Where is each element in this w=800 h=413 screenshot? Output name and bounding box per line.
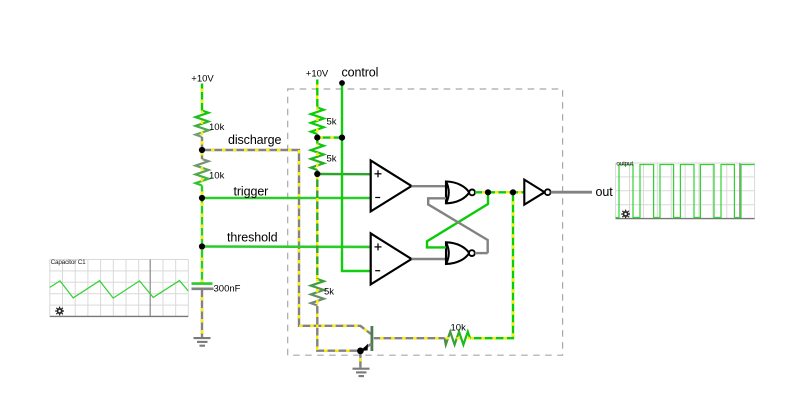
wire: latch node to inverter node: [488, 191, 513, 193]
op-amp comparator 2: [371, 233, 412, 284]
svg-text:discharge: discharge: [228, 133, 281, 147]
svg-text:+10V: +10V: [191, 74, 214, 85]
wire: R1 to R2 through discharge node: [201, 137, 203, 159]
ground (transistor emitter): [353, 369, 370, 376]
resistor 5k #3: [311, 279, 324, 306]
svg-text:Capacitor C1: Capacitor C1: [51, 259, 87, 266]
svg-text:10k: 10k: [209, 171, 225, 182]
wire: feedback down to discharge transistor drive: [470, 192, 513, 338]
wire: divider junction to control: [317, 136, 342, 138]
wire: +10V to R1: [201, 84, 203, 111]
svg-text:control: control: [342, 66, 379, 80]
wire: +10V to 5k #1: [316, 80, 318, 108]
resistor R2 10k: [196, 159, 209, 186]
node divider junction: [314, 135, 320, 141]
svg-text:+10V: +10V: [306, 68, 329, 79]
resistor 5k #2: [311, 144, 324, 171]
node control junction: [339, 135, 345, 141]
wire: comp1 output: [412, 185, 447, 187]
wire: node to inverter: [513, 191, 524, 193]
wire: discharge run to transistor collector: [202, 150, 371, 334]
wire: emitter to ground: [359, 351, 361, 368]
wire: 5k3 to emitter node: [317, 306, 357, 351]
capacitor C1 300nF: [192, 282, 213, 285]
wire: gray feedback gate2 out to gate1 input: [428, 198, 488, 253]
svg-text:threshold: threshold: [227, 231, 278, 245]
NAND gate 2 (bottom of SR latch): [446, 242, 475, 264]
node comp1 plus junction: [314, 171, 320, 177]
node control post: [339, 80, 345, 86]
node gate1 output: [485, 189, 491, 195]
wire: 5k2 down to 5k3: [316, 170, 318, 279]
wire: trigger node down to capacitor: [201, 186, 203, 284]
node discharge: [199, 147, 205, 153]
scope: capacitor C1 waveform window: [50, 259, 189, 316]
svg-text:trigger: trigger: [234, 185, 269, 199]
wire: threshold horizontal: [202, 245, 371, 248]
svg-text:out: out: [596, 185, 614, 199]
wire: gate2 output stub: [475, 252, 488, 254]
scope: output waveform window: [616, 161, 755, 219]
NAND gate 1 (top of SR latch): [446, 182, 475, 204]
svg-text:output: output: [616, 161, 633, 168]
svg-text:10k: 10k: [451, 322, 467, 333]
node inverter input: [510, 189, 516, 195]
svg-text:10k: 10k: [209, 122, 225, 133]
resistor 5k #1: [311, 108, 324, 135]
wire: 5k1 to 5k2: [316, 134, 318, 144]
svg-text:5k: 5k: [324, 287, 334, 298]
svg-text:300nF: 300nF: [214, 284, 241, 295]
op-amp comparator 1: [371, 161, 412, 212]
resistor R1 10k: [196, 111, 209, 138]
node trigger: [199, 195, 205, 201]
transistor Q1 (discharge, NPN): [361, 326, 374, 351]
ground (capacitor): [194, 338, 211, 346]
inverter U3: [524, 180, 550, 205]
wire: comp1 + input stub: [317, 173, 370, 176]
wire: trigger horizontal: [202, 197, 371, 200]
wire: green feedback gate1 out to gate2 input: [427, 192, 488, 247]
wire: comp2 output: [412, 258, 447, 260]
svg-text:5k: 5k: [327, 154, 337, 165]
svg-text:5k: 5k: [327, 117, 337, 128]
wire: 10k to transistor base: [374, 337, 445, 339]
resistor 10k (base drive): [445, 332, 470, 345]
wire: inverter output to out: [551, 191, 592, 194]
wire: capacitor to ground: [201, 290, 203, 337]
wire: gate1 output to node: [475, 191, 488, 193]
node threshold: [199, 243, 205, 249]
555 chip dashed boundary box: [288, 89, 563, 355]
node emitter: [357, 348, 364, 355]
